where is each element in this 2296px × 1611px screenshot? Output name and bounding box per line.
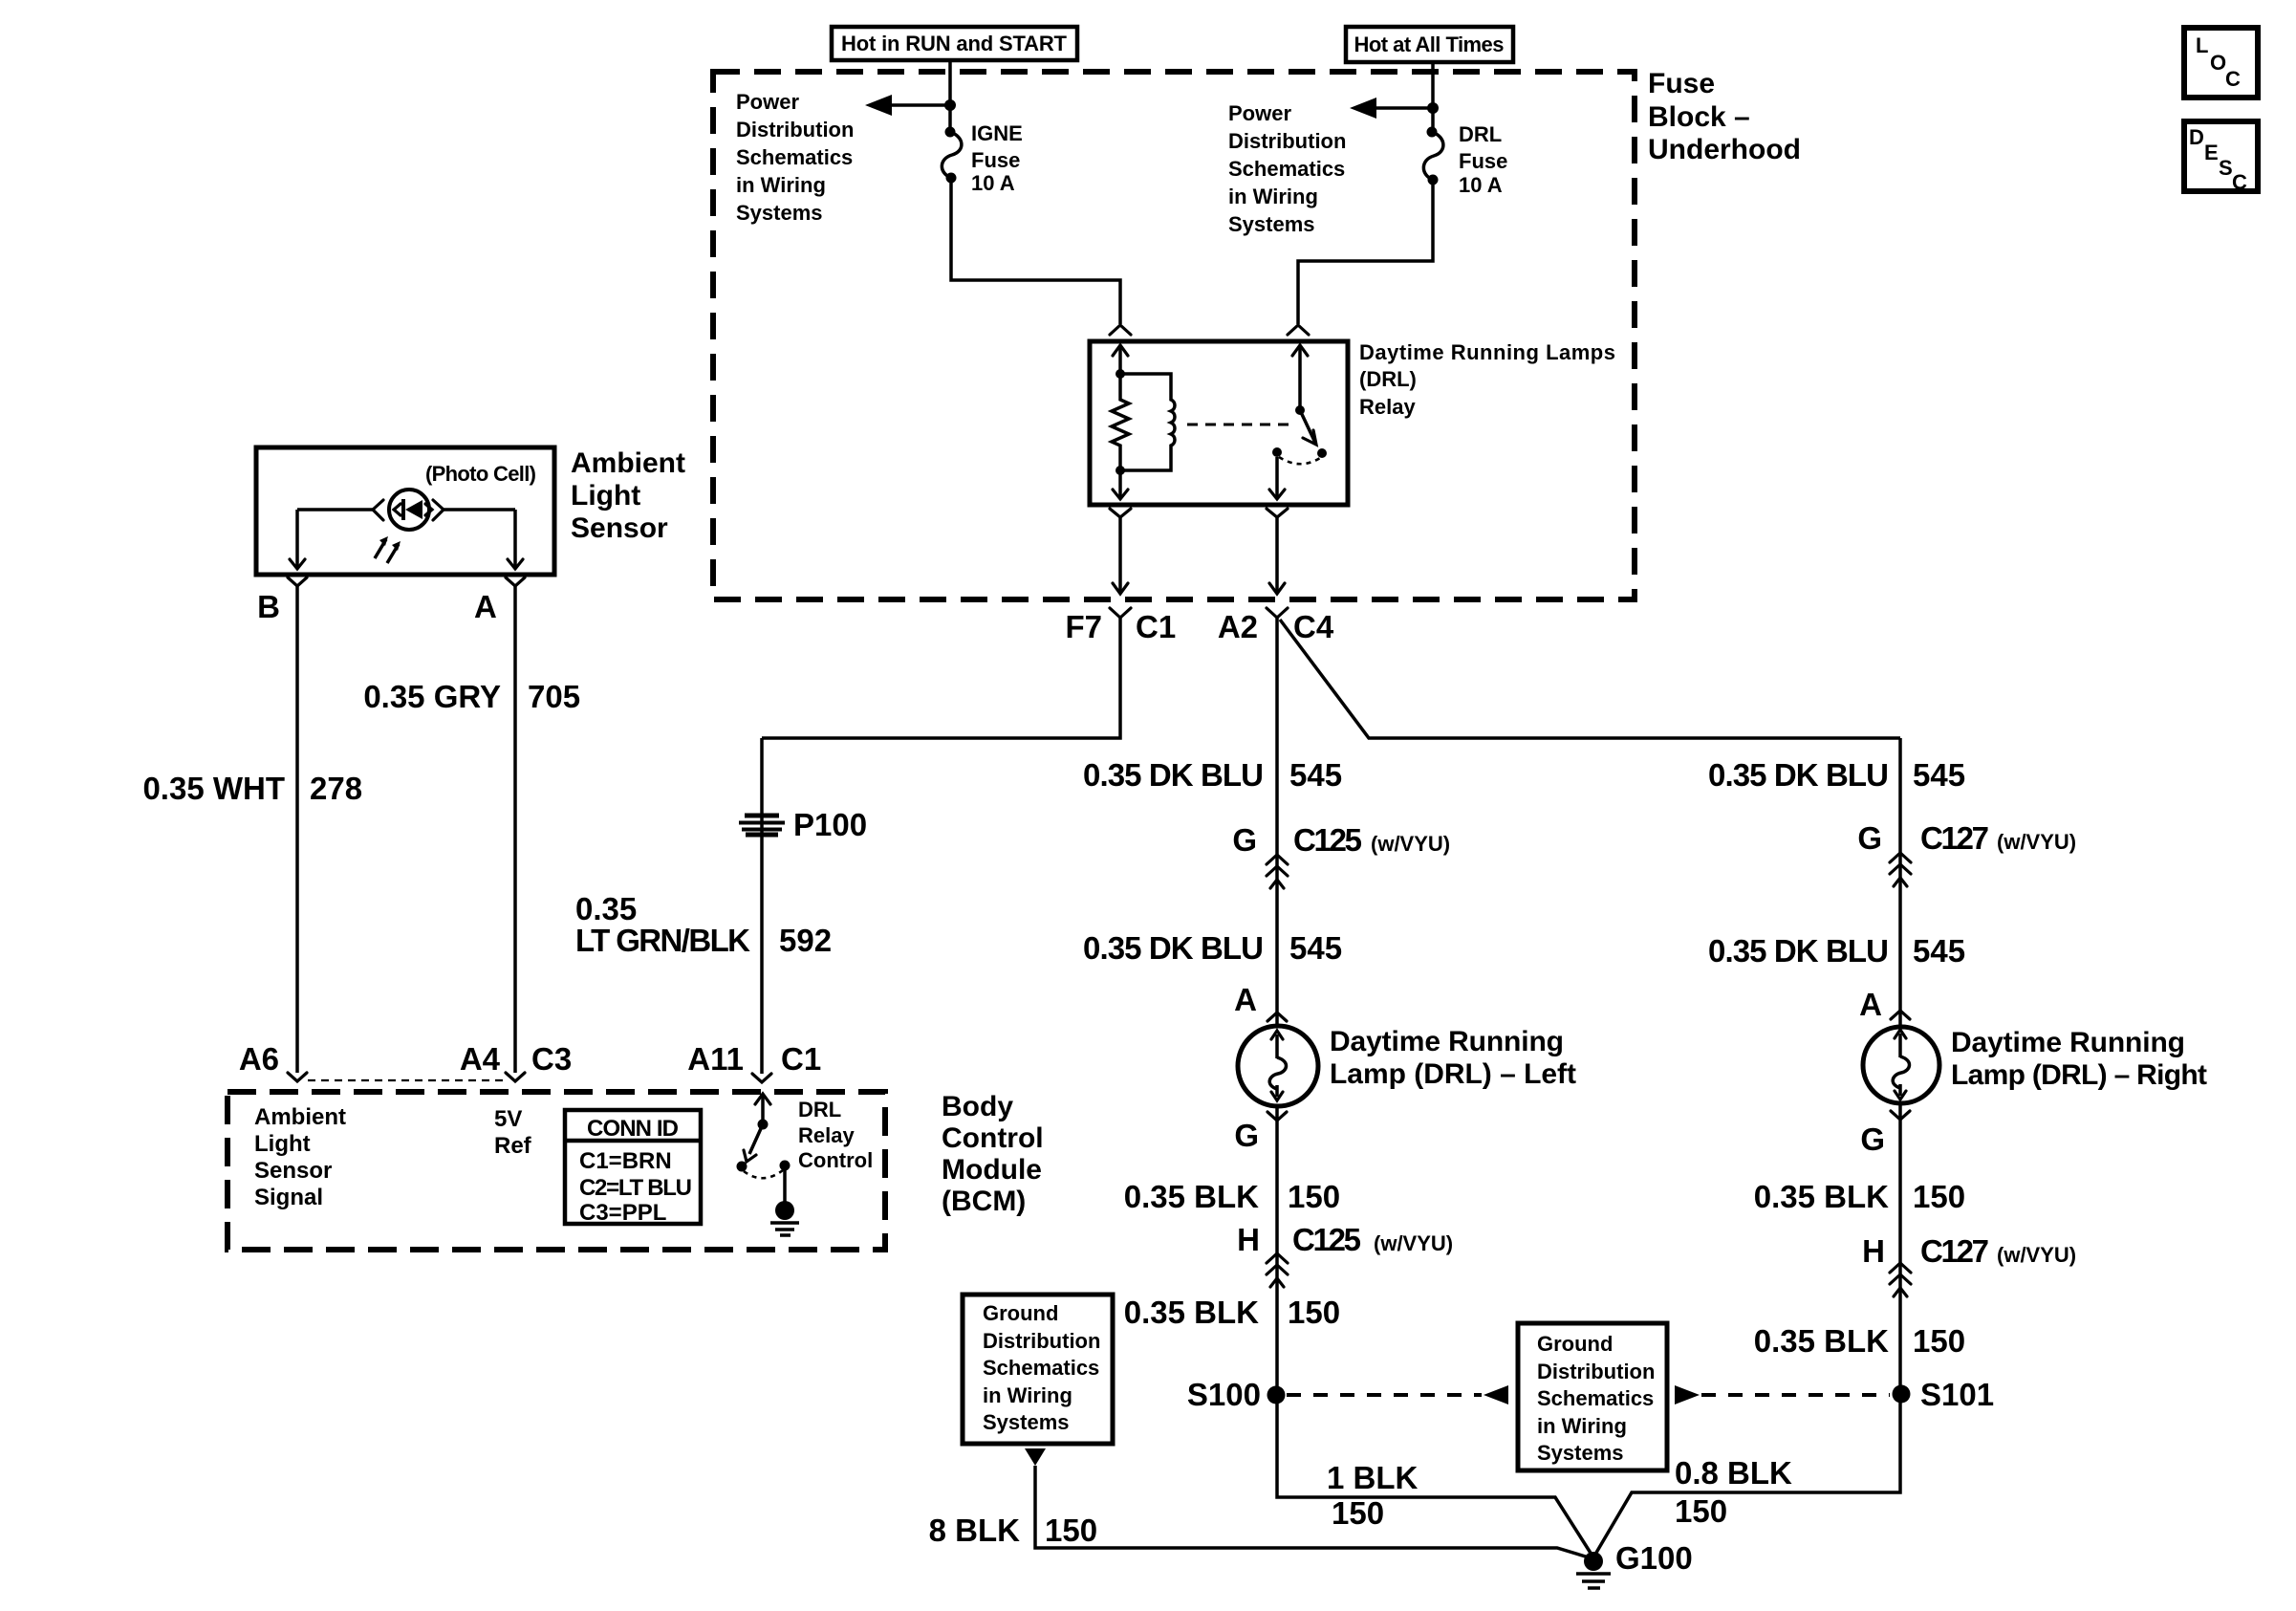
connector chevron A6 [288,1073,307,1081]
connector G C127 labels [1857,820,2076,856]
fuse block underhood dashed box [713,72,1635,599]
relay coil pin internal arrow [1113,345,1128,374]
connector G C125 labels [1232,822,1450,858]
label: 5V Ref [494,1106,532,1159]
svg-text:Schematics: Schematics [736,145,853,169]
svg-text:H: H [1237,1222,1260,1257]
svg-text:DRL: DRL [798,1098,841,1121]
inline connector symbol C127 lower [1890,1263,1911,1296]
label: Power Distribution Schematics in Wiring Systems (left) [736,90,854,225]
junction node [944,99,956,111]
ground distribution box (left) [963,1295,1113,1444]
connector chevron B [288,577,307,586]
svg-text:A: A [1234,982,1257,1017]
label: Body Control Module (BCM) [942,1091,1044,1217]
relay coil L1 [1120,374,1175,470]
label: DRL Fuse 10 A [1459,122,1507,197]
svg-text:(w/VYU): (w/VYU) [1374,1231,1453,1255]
svg-text:C: C [2225,67,2241,91]
svg-text:Signal: Signal [254,1185,323,1210]
pass-through grommet P100 [739,807,867,842]
wire: IGNE fuse to relay coil pin [951,178,1120,324]
BCM driver switch arrow to A11 [755,1094,770,1123]
svg-text:545: 545 [1289,930,1342,966]
switch contact node left (BCM) [737,1162,747,1172]
wire: A2 diagonal to right lamp branch [1280,620,1900,738]
label box: Hot at All Times [1346,27,1513,62]
svg-text:(w/VYU): (w/VYU) [1997,1243,2076,1267]
wire: power distribution takeoff right fuse [1375,106,1433,110]
svg-text:Lamp (DRL) – Left: Lamp (DRL) – Left [1330,1058,1576,1090]
svg-text:C125: C125 [1293,822,1362,858]
wire label: 0.35 BLK 150 (left lower) [1124,1295,1340,1330]
svg-text:Underhood: Underhood [1648,134,1801,165]
svg-text:705: 705 [528,679,580,714]
svg-text:Distribution: Distribution [736,118,854,142]
svg-text:5V: 5V [494,1106,522,1132]
svg-text:S101: S101 [1920,1377,1994,1412]
svg-text:L: L [2196,33,2208,57]
arrowhead down from left ground box [1025,1448,1046,1466]
dashed throw arc (BCM) [744,1170,783,1178]
inline connector symbol C125 lower [1267,1253,1288,1287]
dashed throw arc [1279,457,1320,464]
photodiode bar and triangle [394,499,432,520]
svg-text:C: C [2232,170,2247,194]
svg-text:545: 545 [1289,757,1342,793]
label: Daytime Running Lamps (DRL) Relay [1359,340,1615,419]
svg-text:C2=LT BLU: C2=LT BLU [579,1175,692,1201]
splice S101 [1893,1377,1995,1412]
dashed link coil to switch [1187,424,1289,426]
photocell circle [389,490,429,530]
connector chevron A [506,577,525,586]
svg-text:(BCM): (BCM) [942,1186,1026,1217]
wire: power distribution takeoff (left arrow) [890,103,950,107]
resistor (relay suppression) [1112,374,1129,470]
wire label: 0.35 BLK 150 (left upper) [1124,1179,1340,1214]
connector chevron below relay switch common pin [1267,509,1288,517]
label: Daytime Running Lamp (DRL) - Right [1951,1027,2207,1091]
wire to ground ball [783,1165,787,1202]
CONN ID table [565,1110,701,1226]
svg-text:Ground: Ground [1537,1332,1613,1356]
wire label: 0.35 WHT 278 [142,771,362,806]
arrowhead right (ground distribution) [1675,1385,1700,1404]
wire: left lamp branch vertical [1277,618,1593,1557]
svg-text:Fuse: Fuse [1648,68,1715,99]
fuse IGNE (element) [942,127,962,184]
relay switch pin internal arrow [1292,345,1308,410]
lamp: Daytime Running Lamp (DRL) Left [1238,1026,1318,1106]
svg-text:A: A [474,589,497,624]
svg-text:C127: C127 [1920,820,1989,856]
svg-text:G: G [1232,822,1257,858]
arrowhead left (ground distribution) [1484,1385,1508,1404]
svg-text:Relay: Relay [1359,395,1416,419]
svg-text:150: 150 [1288,1295,1340,1330]
svg-text:Module: Module [942,1154,1042,1186]
svg-text:0.35 WHT: 0.35 WHT [142,771,285,806]
wire label: 1 BLK 150 [1327,1460,1419,1531]
wire: relay coil to lower pin with arrow [1113,470,1128,499]
switch node top [758,1120,769,1130]
svg-text:0.35 GRY: 0.35 GRY [363,679,501,714]
svg-text:Ref: Ref [494,1133,532,1159]
svg-text:Fuse: Fuse [971,148,1020,172]
label: IGNE Fuse 10 A [971,121,1023,195]
svg-text:Light: Light [571,480,640,512]
wire label: 0.35 BLK 150 (right upper) [1754,1179,1965,1214]
svg-text:Daytime Running Lamps: Daytime Running Lamps [1359,340,1615,364]
connector chevron below left lamp [1267,1112,1287,1121]
relay internal node bottom [1116,466,1125,475]
svg-text:Schematics: Schematics [1228,157,1345,181]
svg-text:B: B [257,589,280,624]
svg-text:Control: Control [798,1148,873,1172]
svg-text:E: E [2204,141,2219,164]
svg-text:in Wiring: in Wiring [1228,185,1318,208]
svg-text:H: H [1862,1233,1885,1269]
svg-text:0.35 DK BLU: 0.35 DK BLU [1708,757,1889,793]
svg-text:Hot in RUN and START: Hot in RUN and START [841,32,1068,55]
inline connector symbol C127 upper [1890,853,1911,886]
wire label: 0.35 GRY 705 [363,679,580,714]
connector chevron above right lamp [1891,1011,1910,1019]
wire label: 0.35 DK BLU 545 (right lower) [1708,933,1965,969]
switch contact node common [1272,447,1282,457]
label box: Hot in RUN and START [832,27,1077,60]
svg-text:Ground: Ground [983,1301,1058,1325]
svg-text:Sensor: Sensor [571,512,668,544]
svg-text:(w/VYU): (w/VYU) [1371,832,1450,856]
svg-text:(Photo Cell): (Photo Cell) [425,462,536,486]
wire: photocell right to A lead [444,508,515,512]
svg-text:Daytime Running: Daytime Running [1951,1027,2185,1058]
svg-text:Body: Body [942,1091,1013,1122]
svg-text:0.35 DK BLU: 0.35 DK BLU [1083,757,1264,793]
svg-text:G: G [1857,820,1882,856]
wire: sensor B to BCM A6 [295,586,299,1073]
svg-text:150: 150 [1913,1323,1965,1359]
svg-text:Systems: Systems [736,201,823,225]
switch contact node right (BCM) [780,1161,791,1171]
svg-text:Sensor: Sensor [254,1158,332,1184]
wire: relay to F7 with arrow at fuse block edge [1113,517,1128,594]
label: Ambient Light Sensor Signal [254,1104,346,1210]
connector chevron: relay coil pin top [1110,325,1131,335]
svg-text:10 A: 10 A [971,171,1015,195]
svg-text:Power: Power [736,90,799,114]
svg-text:8 BLK: 8 BLK [929,1513,1021,1548]
inline connector symbol C125 upper [1267,855,1288,888]
ground distribution box (middle) [1518,1323,1667,1470]
svg-text:D: D [2189,125,2204,149]
svg-text:Daytime Running: Daytime Running [1330,1026,1564,1057]
svg-text:Distribution: Distribution [1537,1360,1655,1383]
fuse DRL (element) [1423,127,1443,185]
dashed splice link to S101 [1701,1393,1890,1397]
wire label: 0.35 LT GRN/BLK 592 [575,891,832,958]
connector chevron A4/C3 [506,1073,525,1081]
switch contact node right [1317,448,1327,458]
wire: hot at all times feed into DRL fuse [1431,62,1435,130]
svg-text:Distribution: Distribution [1228,129,1346,153]
wire label: 8 BLK 150 [929,1513,1097,1548]
wire label: 0.35 DK BLU 545 (left lower) [1083,930,1342,966]
svg-text:Distribution: Distribution [983,1329,1100,1353]
svg-text:(DRL): (DRL) [1359,367,1417,391]
DESC reference box [2184,121,2258,194]
svg-text:Hot at All Times: Hot at All Times [1354,33,1505,56]
svg-text:Control: Control [942,1122,1044,1154]
svg-text:DRL: DRL [1459,122,1502,146]
connector chevron: relay switch pin top [1288,325,1309,335]
svg-text:150: 150 [1288,1179,1340,1214]
svg-text:Ambient: Ambient [254,1104,346,1130]
svg-text:S100: S100 [1187,1377,1261,1412]
photocell connector chevrons [373,500,383,520]
svg-text:150: 150 [1675,1493,1727,1529]
wire: photocell left to B lead [297,508,373,512]
svg-text:150: 150 [1045,1513,1097,1548]
connector H C125 labels [1237,1222,1453,1257]
svg-text:Power: Power [1228,101,1291,125]
connector F7/C1 chevron [1110,608,1131,618]
svg-text:0.35: 0.35 [575,891,637,926]
wire: right lamp branch vertical [1593,738,1900,1557]
svg-text:in Wiring: in Wiring [983,1383,1072,1407]
BCM dashed box [227,1092,885,1250]
svg-text:Light: Light [254,1131,311,1157]
lightning arrows into photocell [375,536,401,563]
ground G100 [1576,1540,1693,1588]
svg-text:278: 278 [310,771,362,806]
LOC reference box [2184,28,2258,98]
svg-text:in Wiring: in Wiring [1537,1414,1627,1438]
junction node [1427,102,1439,114]
svg-text:Ambient: Ambient [571,447,685,479]
wire: BCM A11 up through P100 [760,738,764,1074]
svg-text:0.35 BLK: 0.35 BLK [1124,1179,1259,1214]
lamp: Daytime Running Lamp (DRL) Right [1863,1027,1939,1103]
svg-text:Lamp (DRL) – Right: Lamp (DRL) – Right [1951,1059,2207,1091]
svg-text:Systems: Systems [1228,212,1315,236]
svg-text:Schematics: Schematics [983,1356,1099,1380]
label: Daytime Running Lamp (DRL) - Left [1330,1026,1576,1090]
svg-text:in Wiring: in Wiring [736,173,826,197]
arrowhead power distribution [1350,98,1376,119]
wire label: 0.8 BLK 150 [1675,1455,1792,1529]
svg-text:LT GRN/BLK: LT GRN/BLK [575,923,750,958]
label: Power Distribution Schematics in Wiring Systems (right) [1228,101,1346,236]
svg-text:C127: C127 [1920,1233,1989,1269]
svg-text:A6: A6 [239,1041,279,1077]
wire: F7 to BCM horizontal run [762,618,1120,738]
switch arm with arrowhead (BCM) [744,1124,763,1162]
dashed connector face link A6-A4 [308,1079,505,1081]
wire: 8 BLK ground run [1035,1466,1589,1557]
svg-text:545: 545 [1913,933,1965,969]
svg-text:Systems: Systems [1537,1441,1624,1465]
svg-text:545: 545 [1913,757,1965,793]
svg-text:Systems: Systems [983,1410,1070,1434]
splice S100 [1187,1377,1286,1412]
svg-text:0.8 BLK: 0.8 BLK [1675,1455,1792,1491]
svg-text:(w/VYU): (w/VYU) [1997,830,2076,854]
svg-text:G: G [1234,1118,1259,1153]
ambient light sensor box [256,447,554,575]
svg-text:0.35 BLK: 0.35 BLK [1754,1323,1889,1359]
wire label: 0.35 BLK 150 (right lower) [1754,1323,1965,1359]
svg-text:0.35 BLK: 0.35 BLK [1754,1179,1889,1214]
svg-text:A4: A4 [460,1041,501,1077]
svg-text:F7: F7 [1065,609,1102,644]
svg-text:C125: C125 [1292,1222,1361,1257]
arrowhead power distribution left [865,95,892,116]
svg-text:0.35 BLK: 0.35 BLK [1124,1295,1259,1330]
label: Ambient Light Sensor [571,447,685,544]
wire: switch common to lower pin with arrow [1269,457,1285,499]
switch arm with arrowhead [1300,410,1316,445]
ground ball (BCM internal ground) [770,1201,799,1235]
svg-text:C3: C3 [531,1041,572,1077]
label: DRL Relay Control [798,1098,873,1172]
connector chevron below relay left pin [1110,509,1131,517]
svg-text:0.35 DK BLU: 0.35 DK BLU [1708,933,1889,969]
connector chevron above left lamp [1267,1012,1287,1021]
connector H C127 labels [1862,1233,2076,1269]
wire: B lead inside box with arrow [290,510,305,569]
wire label: 0.35 DK BLU 545 (right upper) [1708,757,1965,793]
wire: relay to A2 with arrow at fuse block edge [1269,517,1285,594]
svg-text:C1=BRN: C1=BRN [579,1148,672,1174]
relay box: Daytime Running Lamps (DRL) Relay [1090,341,1348,505]
svg-text:150: 150 [1913,1179,1965,1214]
svg-text:C1: C1 [1136,609,1176,644]
connector A2/C4 chevron [1267,608,1288,618]
svg-text:A11: A11 [687,1041,744,1077]
dashed splice link S100 to ground box [1287,1393,1482,1397]
svg-text:Block –: Block – [1648,101,1750,133]
connector chevron A11/C1 [752,1074,771,1082]
svg-text:G100: G100 [1615,1540,1693,1576]
wire: A lead inside box with arrow [508,510,523,569]
relay internal node top [1116,369,1125,379]
svg-text:P100: P100 [793,807,867,842]
svg-text:Fuse: Fuse [1459,149,1507,173]
svg-text:Relay: Relay [798,1123,855,1147]
svg-text:G: G [1860,1121,1885,1157]
svg-text:10 A: 10 A [1459,173,1503,197]
svg-text:Schematics: Schematics [1537,1386,1654,1410]
switch pivot node [1295,405,1305,415]
svg-text:C3=PPL: C3=PPL [579,1200,666,1226]
svg-text:1 BLK: 1 BLK [1327,1460,1419,1495]
svg-text:150: 150 [1332,1495,1384,1531]
svg-text:0.35 DK BLU: 0.35 DK BLU [1083,930,1264,966]
wire: DRL fuse to relay switch pin [1298,180,1433,324]
svg-text:A: A [1859,987,1882,1022]
wire: hot in run feed into IGNE fuse [948,62,952,130]
label: Fuse Block - Underhood [1648,68,1801,165]
connector chevron below right lamp [1891,1111,1910,1120]
wire label: 0.35 DK BLU 545 (left upper) [1083,757,1342,793]
svg-text:S: S [2219,156,2233,180]
svg-text:CONN ID: CONN ID [587,1116,679,1142]
svg-text:592: 592 [779,923,832,958]
svg-text:C1: C1 [781,1041,821,1077]
svg-text:A2: A2 [1218,609,1258,644]
svg-text:O: O [2210,51,2226,75]
svg-text:C4: C4 [1293,609,1334,644]
svg-text:IGNE: IGNE [971,121,1023,145]
wire: sensor A to BCM A4 [513,586,517,1073]
